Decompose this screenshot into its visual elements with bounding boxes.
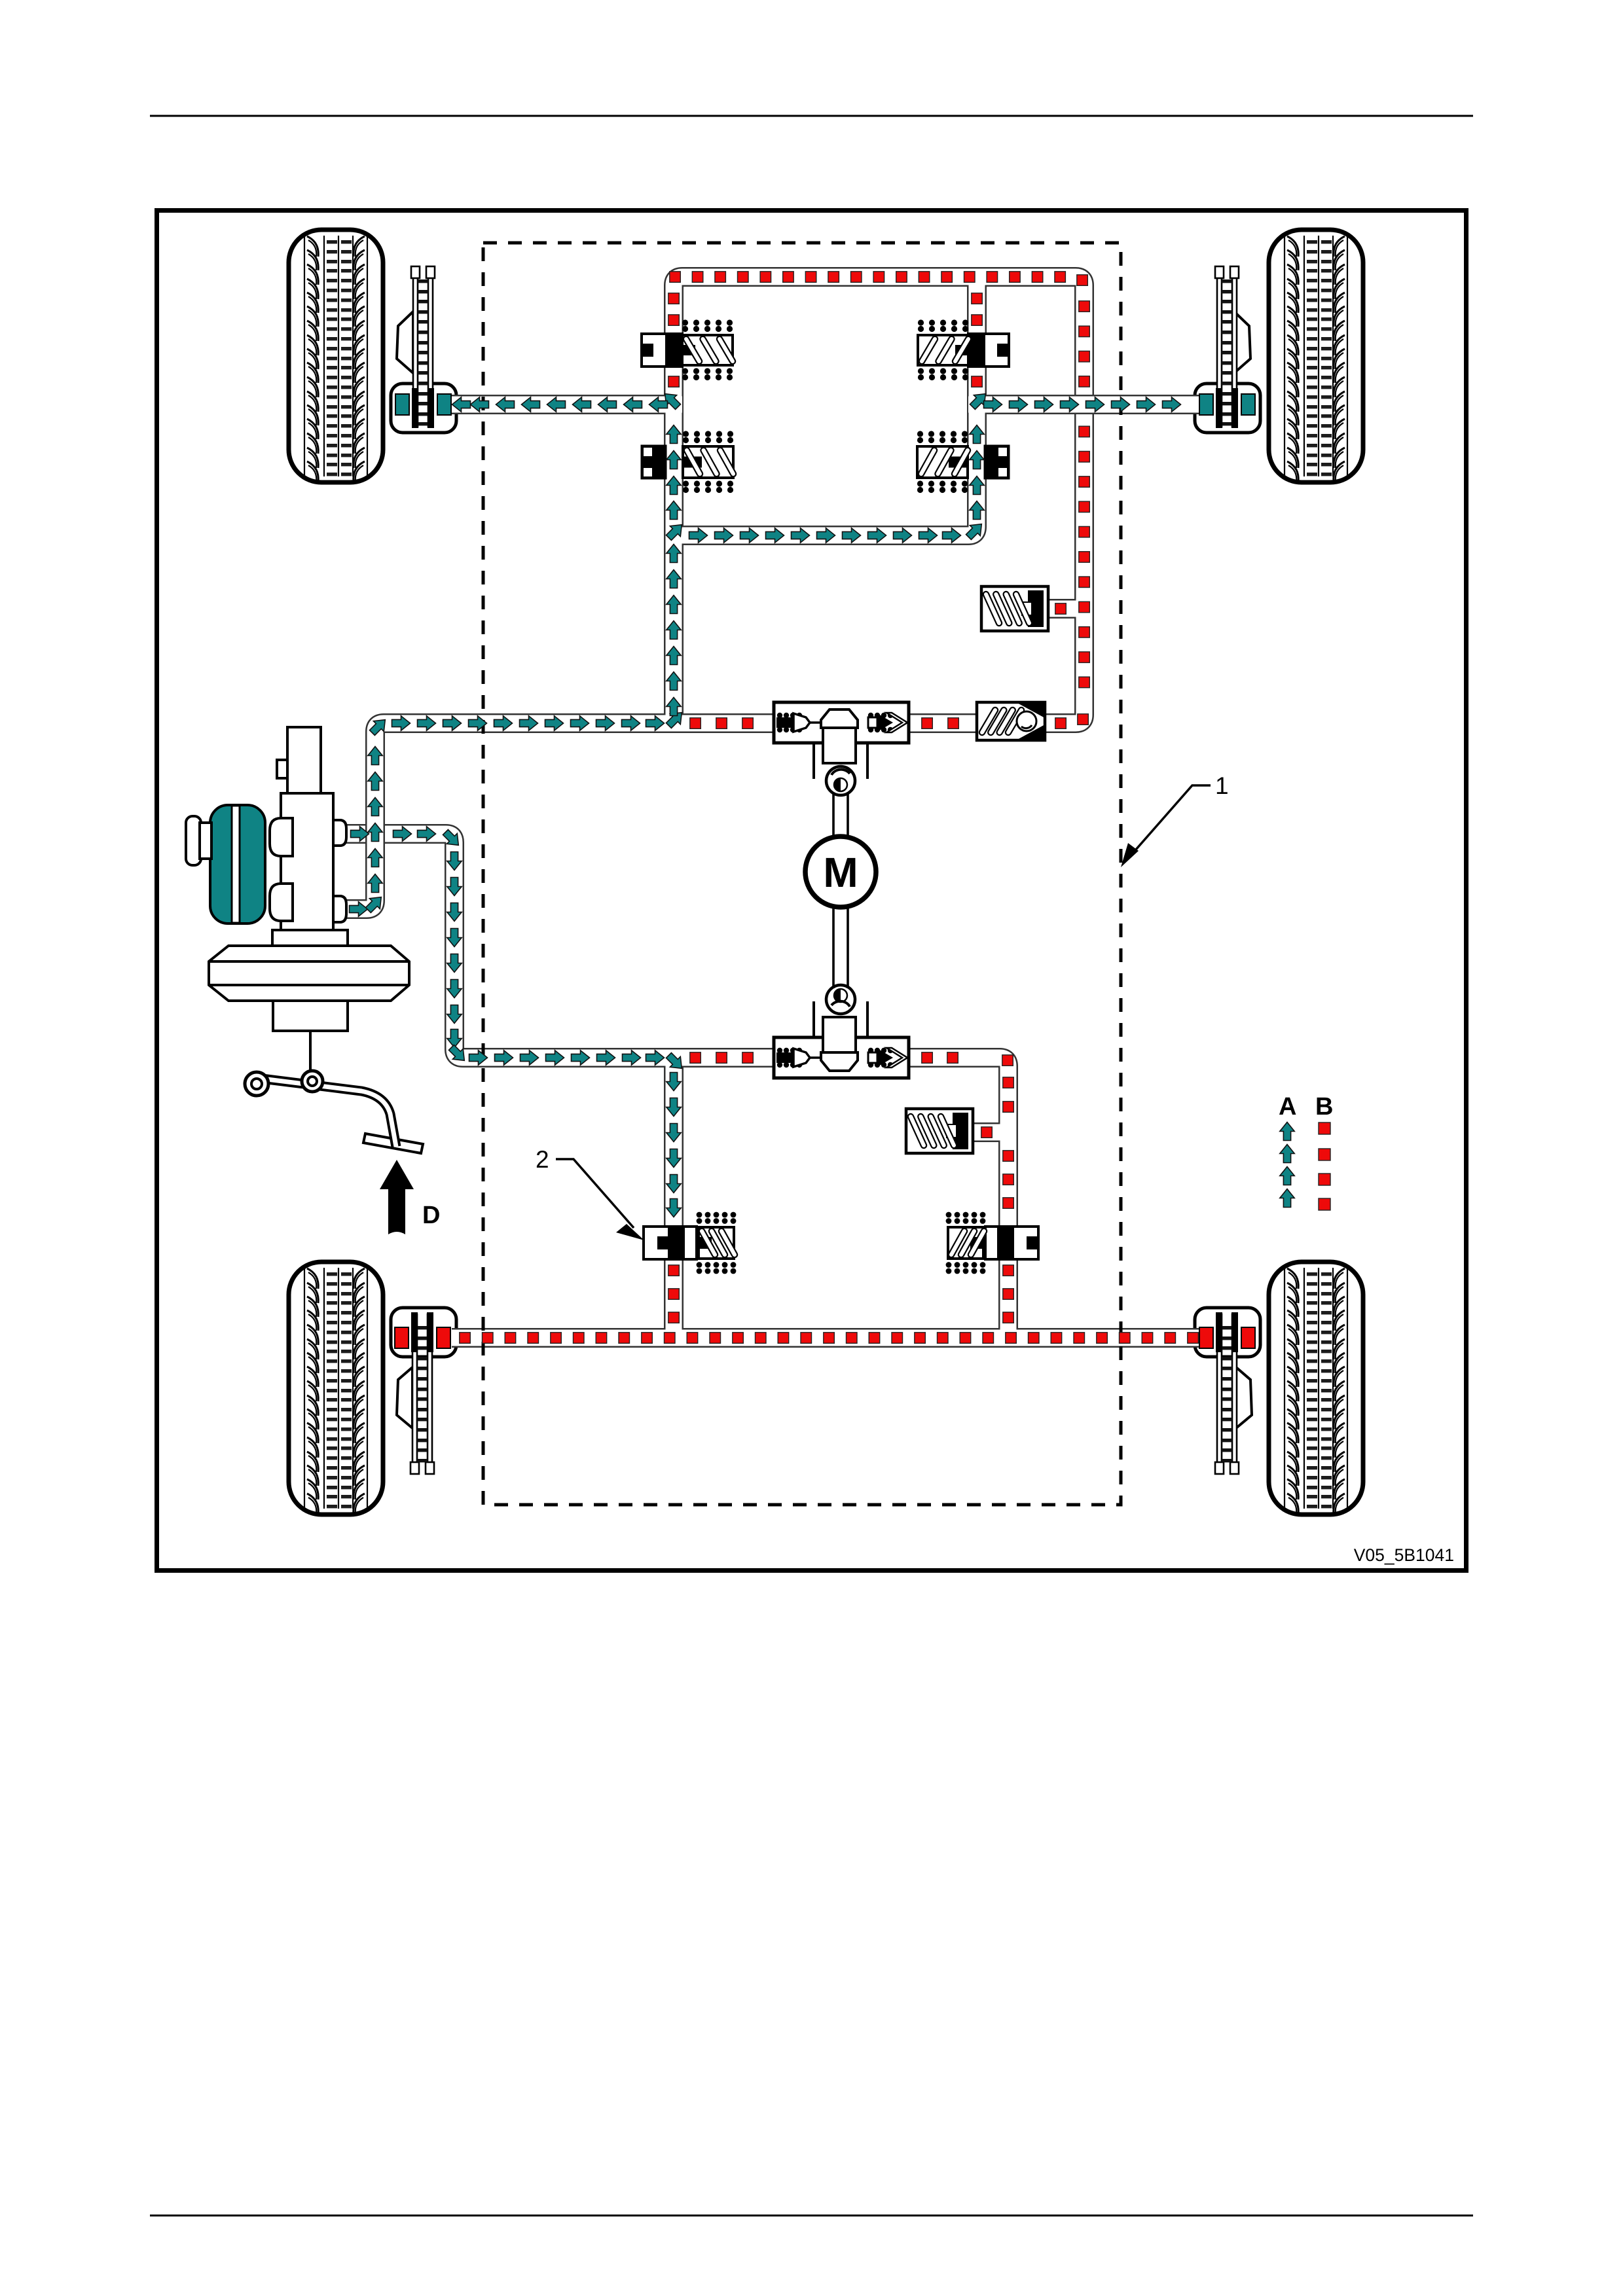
solenoid valve RL inlet (item 2) (644, 1212, 736, 1274)
damper chamber front circuit (977, 702, 1045, 740)
svg-text:M: M (823, 849, 858, 896)
legend A/B (1279, 1093, 1333, 1210)
svg-text:B: B (1315, 1093, 1333, 1121)
wire hydraulic pipe network (casings) (344, 277, 1201, 1346)
HCU dashed boundary box (item 1) (483, 243, 1121, 1505)
wire bridge: FR wheel line crosses return standpipe (1062, 395, 1106, 414)
accumulator rear circuit (906, 1109, 973, 1153)
pushrod housing (273, 1001, 348, 1031)
rear-left knuckle (397, 1367, 412, 1428)
MC chamber bump upper (270, 818, 293, 856)
vacuum booster (teal) (210, 805, 265, 924)
front-left knuckle (397, 312, 413, 373)
svg-text:2: 2 (536, 1146, 549, 1173)
wire bridge: front supply crosses rear supply (365, 813, 385, 855)
svg-text:V05_5B1041: V05_5B1041 (1354, 1545, 1454, 1565)
rear-left tire (289, 1262, 383, 1515)
rear-right caliper body (1195, 1308, 1260, 1357)
front-right caliper body (1195, 384, 1260, 433)
rear-right knuckle (1236, 1367, 1252, 1428)
front-left tire (289, 230, 383, 482)
rear-left brake disc (410, 1314, 434, 1474)
pedal pad (363, 1134, 423, 1153)
front-right knuckle (1234, 312, 1250, 373)
pump front circuit (774, 702, 909, 795)
front-left brake disc (411, 266, 435, 427)
svg-text:A: A (1279, 1093, 1296, 1121)
front-left caliper body (391, 384, 456, 433)
pump drive shaft upper (833, 793, 848, 838)
booster centre stripe (232, 806, 240, 923)
front-right tire (1269, 230, 1363, 482)
rear-right tire (1269, 1262, 1363, 1515)
pedal force arrow (380, 1160, 414, 1234)
label 2 leader (556, 1159, 644, 1240)
front-right brake disc (1215, 266, 1239, 427)
label 1 leader (1121, 785, 1211, 867)
solenoid valve FR inlet (917, 431, 1009, 493)
svg-text:1: 1 (1215, 772, 1229, 799)
MC outlet port lower (333, 896, 346, 922)
rear-left caliper pads (red) (395, 1312, 450, 1352)
front-right caliper pads (teal) (1199, 388, 1255, 428)
bottom rule (150, 2215, 1473, 2217)
solenoid valve FR outlet (918, 319, 1009, 380)
rear-right caliper pads (red) (1199, 1312, 1255, 1352)
MC outlet port upper (cap) (333, 820, 346, 846)
MC chamber bump lower (270, 884, 293, 921)
wire flow squares circuit B (red) (460, 272, 1199, 1344)
booster front boss (186, 816, 201, 865)
solenoid valve FL outlet (642, 319, 733, 380)
front-left caliper pads (teal) (395, 388, 451, 428)
pedal lever arm (262, 1079, 396, 1147)
pump rear circuit (774, 985, 909, 1078)
rear-right brake disc (1215, 1314, 1239, 1474)
pedal pivot (245, 1072, 268, 1096)
rear-left caliper body (391, 1308, 456, 1357)
pump drive shaft lower (833, 906, 848, 988)
electric motor M (805, 836, 876, 907)
MC outlet port upper (333, 820, 346, 846)
wire hydraulic pipe network (cores) (344, 277, 1207, 1346)
solenoid valve FL inlet (642, 431, 733, 493)
pushrod (309, 1031, 312, 1077)
top rule (150, 115, 1473, 117)
solenoid valve RR inlet (946, 1212, 1038, 1274)
master cylinder body (281, 793, 333, 930)
reservoir side tab (277, 760, 287, 778)
wire flow arrows circuit A (teal) (350, 394, 1181, 1217)
booster flange (272, 930, 348, 946)
MC outlet port lower (cap) (333, 896, 346, 922)
booster boss link (200, 823, 211, 859)
pushrod joint (302, 1071, 323, 1092)
svg-text:D: D (422, 1202, 440, 1229)
diagram frame (157, 211, 1467, 1571)
brake fluid reservoir (287, 727, 321, 793)
booster shell (209, 946, 409, 1001)
accumulator front circuit (981, 586, 1048, 631)
